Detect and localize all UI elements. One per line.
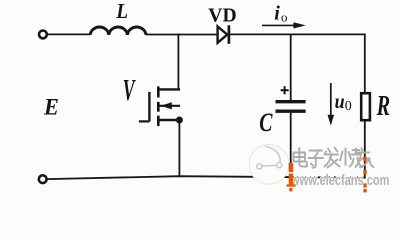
svg-text:www.elecfans.com: www.elecfans.com [290,172,389,189]
svg-text:E: E [43,94,59,120]
svg-text:L: L [115,0,128,23]
svg-text:i: i [274,3,280,25]
svg-text:R: R [376,91,390,122]
svg-text:o: o [281,9,288,24]
svg-text:u: u [335,91,345,113]
svg-text:V: V [123,75,136,108]
svg-text:VD: VD [208,4,236,26]
svg-text:0: 0 [345,99,352,114]
svg-text:C: C [259,107,273,136]
